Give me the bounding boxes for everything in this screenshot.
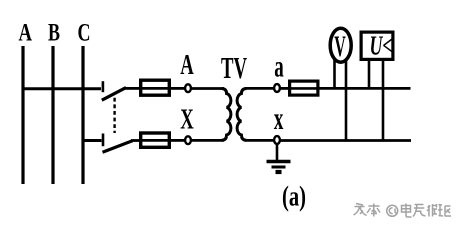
wire terminal X to primary winding: [191, 139, 224, 142]
wire secondary winding to terminal a: [245, 87, 274, 90]
ground bar 1: [267, 160, 291, 163]
fuse FU3 body: [290, 81, 318, 95]
svg-text:V: V: [334, 31, 346, 63]
wire fuse FU1 to terminal A: [171, 87, 185, 90]
fuse FU2 element line: [139, 139, 171, 142]
svg-text:A: A: [180, 50, 194, 81]
terminal A node: [185, 84, 191, 92]
relay U lead right: [382, 58, 385, 141]
svg-text:C: C: [78, 18, 91, 47]
ground bar 3: [276, 170, 282, 174]
voltmeter V lead left: [333, 58, 336, 88]
wire lower blade to fuse FU2: [131, 139, 139, 142]
wire secondary winding to terminal x: [245, 139, 274, 142]
disconnector QS upper fixed contact: [102, 81, 105, 92]
svg-text:TV: TV: [221, 50, 247, 85]
mechanical link dashed line of QS: [113, 98, 115, 133]
wire upper blade to fuse FU1: [125, 87, 139, 90]
disconnector QS lower fixed contact: [102, 134, 105, 147]
terminal a node: [274, 84, 280, 92]
transformer TV secondary winding: [237, 89, 246, 141]
svg-text:A: A: [18, 18, 32, 47]
wire terminal a to fuse FU3: [280, 87, 288, 90]
ground stem: [276, 144, 279, 160]
disconnector QS upper blade: [102, 88, 126, 101]
watermark toutiao dianqiweishequ: [354, 204, 452, 218]
fuse FU1 element line: [139, 87, 171, 90]
busbar C: [81, 46, 84, 184]
wire secondary bottom line to right end: [280, 139, 411, 142]
terminal X node: [185, 136, 191, 144]
svg-text:X: X: [180, 105, 194, 136]
relay U body: [361, 32, 393, 59]
svg-text:a: a: [274, 49, 284, 84]
wire secondary top line to right end: [320, 87, 411, 90]
voltmeter V lead right: [345, 58, 348, 141]
voltmeter V body: [330, 28, 351, 62]
disconnector QS lower blade: [103, 141, 133, 153]
svg-text:x: x: [274, 100, 284, 136]
ground bar 2: [272, 166, 286, 169]
wire lower tap from busbar C to switch: [82, 139, 102, 142]
relay U lead left: [368, 58, 371, 88]
busbar A: [21, 46, 24, 184]
terminal x node: [274, 136, 280, 144]
svg-text:U<: U<: [370, 31, 393, 61]
svg-text:(a): (a): [282, 181, 306, 213]
transformer TV primary winding: [222, 89, 231, 141]
busbar B: [51, 46, 54, 184]
wire upper tap from busbar A to switch: [22, 87, 101, 90]
fuse FU2 body: [141, 133, 170, 147]
svg-text:B: B: [48, 18, 60, 47]
fuse FU1 body: [141, 80, 170, 95]
wire fuse FU2 to terminal X: [171, 139, 185, 142]
wire terminal A to primary winding: [191, 87, 224, 90]
fuse FU3 element line: [288, 87, 320, 90]
